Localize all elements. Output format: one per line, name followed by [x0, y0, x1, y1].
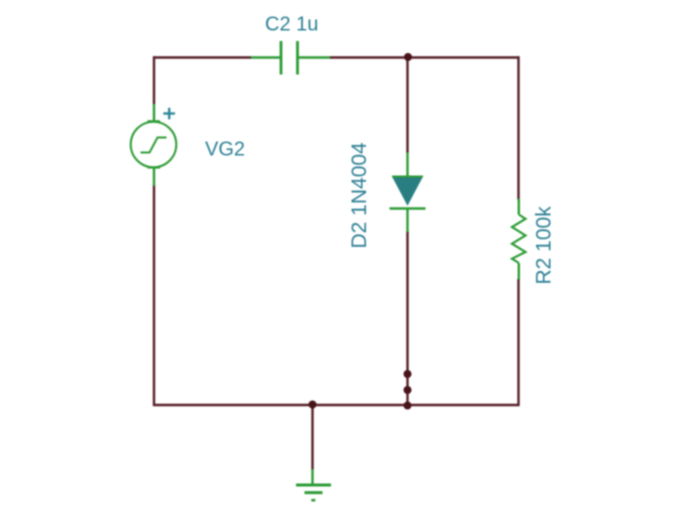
value label D2 1N4004 (rotated) [348, 142, 371, 249]
wire left vertical lower (VG2 bottom lead down to bottom corner) [153, 185, 155, 406]
voltage source VG2 [131, 104, 177, 186]
svg-text:R2 100k: R2 100k [533, 206, 556, 285]
junction dot at middle branch / bottom net [404, 402, 412, 410]
wire right vertical upper (top corner to R2 top lead) [517, 56, 519, 200]
value label C2 1u [265, 14, 318, 36]
capacitor C2 [251, 41, 330, 75]
wire middle vertical lower (D2 cathode lead to bottom net) [406, 232, 408, 410]
reference label VG2 [205, 139, 245, 161]
wire top-left horizontal (node top, VG2+ to C2 left lead) [153, 56, 251, 58]
wire ground stub (bottom net down to ground symbol) [311, 405, 313, 470]
wire middle vertical upper (top node to D2 anode lead) [406, 57, 408, 153]
svg-text:C2 1u: C2 1u [265, 14, 318, 36]
svg-text:VG2: VG2 [205, 139, 245, 161]
junction dot at ground stub / bottom net [309, 401, 317, 409]
wire bottom horizontal (bottom net) [153, 404, 520, 406]
junction dot on middle branch (upper) [404, 370, 412, 378]
wire top-right horizontal (C2 right lead to right corner, through node) [330, 56, 520, 58]
value label R2 100k (rotated) [533, 206, 556, 285]
junction dot at top node (middle branch / top wire) [404, 53, 412, 61]
wire left vertical upper (top corner down to VG2 top lead) [153, 56, 155, 104]
junction dot on middle branch (middle) [404, 386, 412, 394]
plus polarity mark of VG2 [163, 108, 175, 120]
svg-text:D2 1N4004: D2 1N4004 [348, 142, 371, 249]
diode D2 [390, 153, 426, 233]
resistor R2 [512, 199, 526, 280]
ground symbol [296, 469, 331, 500]
wire right vertical lower (R2 bottom lead to bottom corner) [517, 279, 519, 406]
